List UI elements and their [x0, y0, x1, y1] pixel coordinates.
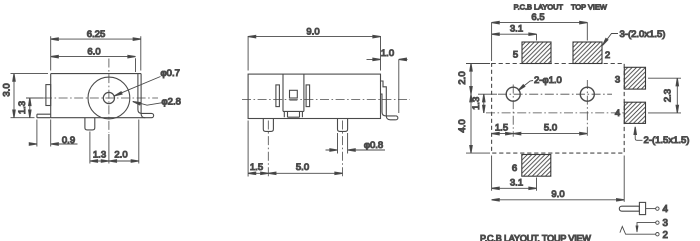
- dim dia 0.8: [326, 133, 386, 154]
- hole 2: [580, 87, 594, 101]
- right flange: [306, 85, 310, 107]
- svg-text:3: 3: [615, 75, 620, 86]
- svg-text:1.3: 1.3: [471, 97, 482, 110]
- svg-text:6.25: 6.25: [87, 29, 106, 40]
- svg-text:1.5: 1.5: [495, 122, 508, 133]
- plug tip contact: [639, 202, 645, 214]
- svg-text:2.3: 2.3: [662, 89, 673, 102]
- svg-text:3-(2.0x1.5): 3-(2.0x1.5): [620, 29, 666, 40]
- wire from 2 with spring contact: [620, 226, 656, 234]
- terminal 4 circle: [656, 207, 659, 210]
- svg-text:2.0: 2.0: [457, 71, 468, 84]
- svg-text:1.3: 1.3: [17, 101, 28, 114]
- dim 1.3 (vertical): [478, 94, 497, 113]
- dim 2.3 (vertical right): [648, 78, 681, 113]
- svg-text:5.0: 5.0: [544, 122, 557, 133]
- bottom bench legs: [284, 111, 302, 117]
- dim 4.0 (vertical): [466, 94, 490, 153]
- svg-text:1.0: 1.0: [381, 48, 394, 59]
- pin1 centerline: [267, 121, 269, 177]
- svg-text:TOP VIEW: TOP VIEW: [571, 2, 607, 11]
- svg-text:φ2.8: φ2.8: [162, 96, 181, 107]
- svg-text:2: 2: [605, 50, 610, 61]
- pin 1: [263, 119, 273, 132]
- latch block: [283, 74, 304, 111]
- dim 1.3 / 2.0 (bottom): [90, 120, 139, 164]
- pin2 centerline: [342, 121, 344, 177]
- pad 6: [522, 155, 551, 177]
- svg-text:4: 4: [615, 108, 620, 119]
- terminal 2 circle: [656, 233, 659, 236]
- dim 0.9: [29, 120, 77, 147]
- pad 3: [624, 67, 645, 89]
- svg-text:4.0: 4.0: [457, 119, 468, 132]
- svg-text:6.5: 6.5: [531, 12, 544, 23]
- svg-text:6.0: 6.0: [87, 46, 100, 57]
- bottom pin: [85, 118, 95, 130]
- label 3-(2.0x1.5) with leader: [604, 34, 619, 45]
- lower centerline horizontal: [486, 112, 624, 114]
- svg-text:1.5: 1.5: [250, 162, 263, 173]
- center pin hole circle: [103, 92, 114, 103]
- svg-text:4: 4: [663, 204, 669, 215]
- svg-text:1.3: 1.3: [93, 150, 106, 161]
- left side tab: [46, 85, 51, 106]
- dim 2.0 (vertical): [466, 64, 490, 95]
- wire to terminal 4: [646, 208, 656, 210]
- dim 1.0: [367, 59, 408, 113]
- dim 9.0 (bottom): [492, 156, 625, 202]
- wire from 3 with contact arrow: [637, 223, 656, 229]
- label 2-dia1.0 with leader: [520, 81, 534, 90]
- svg-text:9.0: 9.0: [551, 189, 564, 200]
- jack body outline: [37, 74, 154, 118]
- pcb dashed outline: [492, 64, 625, 154]
- dim 3.0 (vertical, left): [11, 74, 49, 118]
- svg-text:φ0.8: φ0.8: [364, 140, 383, 151]
- terminal 3 circle: [656, 221, 659, 224]
- hole 1: [506, 87, 520, 101]
- pin 2: [338, 119, 348, 132]
- dim 3.1 (bottom): [492, 156, 537, 191]
- svg-text:6: 6: [512, 163, 517, 174]
- svg-text:2: 2: [663, 230, 668, 241]
- hole1 vertical centerline: [512, 85, 514, 137]
- svg-text:3: 3: [663, 218, 669, 229]
- svg-text:3.1: 3.1: [510, 178, 523, 189]
- svg-text:3.1: 3.1: [510, 23, 523, 34]
- barrel outer circle: [88, 77, 130, 119]
- hole2 vertical centerline: [586, 80, 588, 137]
- dim 9.0: [248, 36, 380, 71]
- left flange: [276, 85, 280, 107]
- inner square window: [290, 90, 298, 98]
- horizontal centerline: [43, 97, 158, 99]
- pad 5: [522, 42, 551, 64]
- dim 6.0: [51, 57, 136, 72]
- svg-text:5: 5: [513, 49, 518, 60]
- svg-text:2-φ1.0: 2-φ1.0: [534, 75, 562, 86]
- dim 1.3 (vertical, left): [26, 98, 43, 118]
- label 2-(1.5x1.5) with leader: [635, 128, 642, 140]
- dim 6.25: [51, 36, 141, 70]
- label dia 2.8 with leader: [135, 102, 162, 105]
- svg-text:5.0: 5.0: [296, 162, 309, 173]
- svg-text:φ0.7: φ0.7: [161, 68, 180, 79]
- vertical centerline: [108, 59, 110, 134]
- svg-text:2-(1.5x1.5): 2-(1.5x1.5): [644, 135, 690, 146]
- svg-text:P.C.B LAYOUT, TOUP VIEW: P.C.B LAYOUT, TOUP VIEW: [480, 234, 591, 241]
- svg-text:0.9: 0.9: [62, 135, 75, 146]
- dim 1.5 / 5.0: [248, 121, 342, 177]
- svg-text:2.0: 2.0: [114, 150, 127, 161]
- svg-text:3.0: 3.0: [2, 83, 13, 96]
- dim 6.5: [492, 22, 588, 61]
- pad 4: [624, 102, 645, 123]
- dim 3.1 (top): [492, 34, 537, 41]
- label dia 0.7 with leader: [117, 77, 161, 95]
- svg-text:9.0: 9.0: [306, 26, 319, 37]
- dim 1.5 / 5.0: [492, 133, 588, 135]
- plug barrel: [619, 206, 639, 211]
- pad 2: [573, 42, 602, 64]
- svg-text:P.C.B LAYOUT: P.C.B LAYOUT: [514, 2, 564, 11]
- right bent leg: [381, 81, 398, 120]
- horizontal centerline: [242, 99, 410, 101]
- body outline: [248, 74, 380, 118]
- holes centerline horizontal: [498, 93, 612, 95]
